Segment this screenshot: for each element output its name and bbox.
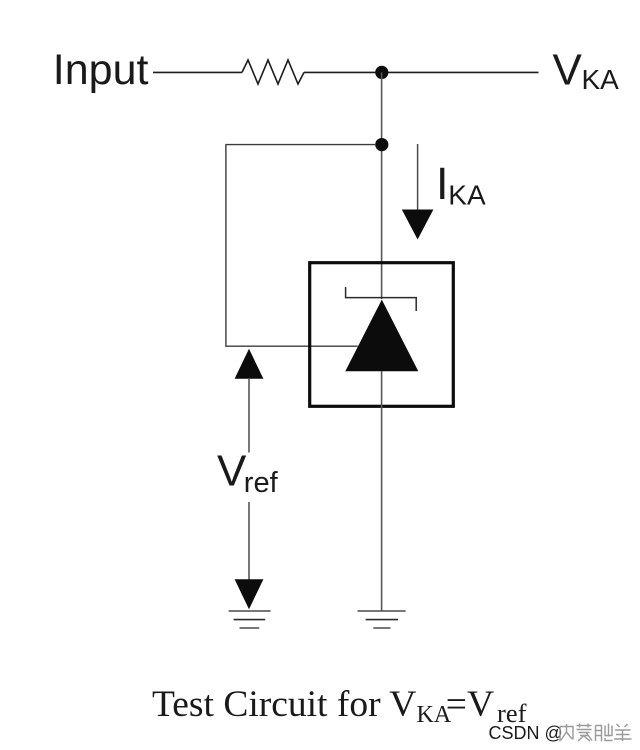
wire resistor to VKA bbox=[304, 71, 539, 73]
svg-text:V: V bbox=[553, 46, 583, 95]
device triangle (anode) bbox=[345, 300, 418, 372]
svg-text:Test Circuit for V: Test Circuit for V bbox=[152, 684, 416, 725]
glyph yang bbox=[614, 724, 632, 741]
ground symbol center bbox=[358, 610, 406, 612]
glyph fei bbox=[596, 724, 613, 742]
svg-text:KA: KA bbox=[582, 64, 620, 95]
current arrow IKA head bbox=[402, 210, 434, 240]
Vref arrow head bottom bbox=[235, 579, 264, 609]
glyph nei bbox=[560, 724, 573, 742]
wire Input to resistor bbox=[153, 71, 242, 73]
Vref arrow head top bbox=[235, 349, 264, 379]
wire device anode down to ground bbox=[381, 371, 383, 611]
current arrow IKA line bbox=[417, 144, 419, 211]
wire feedback: node to left, down, into box to reference pin bbox=[226, 145, 375, 347]
svg-text:V: V bbox=[217, 447, 247, 496]
svg-text:KA: KA bbox=[448, 179, 486, 210]
glyph meng bbox=[577, 724, 593, 742]
svg-text:ref: ref bbox=[244, 467, 279, 499]
device cathode bar with bent ends bbox=[346, 287, 417, 311]
svg-text:Input: Input bbox=[53, 46, 149, 94]
node junction dot feedback bbox=[375, 138, 388, 151]
wire cathode node down to device bbox=[381, 72, 383, 299]
svg-text:=V: =V bbox=[446, 684, 494, 725]
watermark CJK glyphs (drawn) bbox=[560, 724, 632, 742]
svg-text:CSDN @: CSDN @ bbox=[489, 723, 563, 743]
Vref arrow line lower bbox=[248, 502, 250, 580]
svg-text:I: I bbox=[436, 158, 449, 209]
resistor R1 bbox=[242, 60, 304, 84]
ground symbol left bbox=[229, 610, 271, 612]
node junction dot top (cathode node) bbox=[375, 66, 388, 79]
device box U1 (shunt regulator) bbox=[310, 263, 454, 407]
Vref arrow line upper bbox=[248, 378, 250, 453]
